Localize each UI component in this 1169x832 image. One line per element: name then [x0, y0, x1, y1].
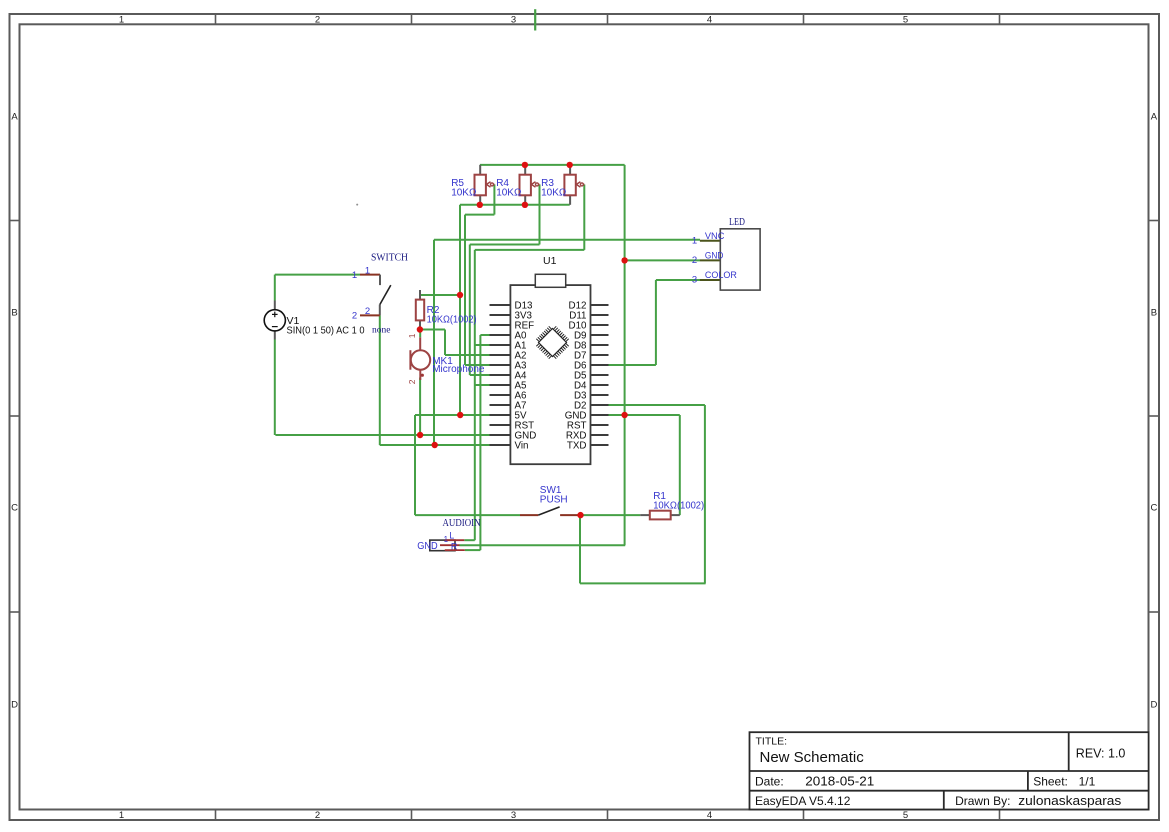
svg-text:1: 1: [352, 270, 357, 281]
svg-text:1/1: 1/1: [1079, 774, 1096, 788]
svg-text:Microphone: Microphone: [432, 364, 485, 375]
svg-text:2018-05-21: 2018-05-21: [805, 774, 874, 788]
svg-text:10KΩ: 10KΩ: [451, 188, 477, 199]
svg-text:A: A: [11, 112, 18, 123]
svg-text:B: B: [1151, 308, 1157, 319]
svg-text:Sheet:: Sheet:: [1033, 774, 1068, 788]
svg-text:SIN(0 1 50) AC 1 0: SIN(0 1 50) AC 1 0: [287, 324, 365, 336]
svg-text:TXD: TXD: [567, 441, 587, 452]
svg-text:3: 3: [692, 275, 697, 286]
svg-text:10KΩ: 10KΩ: [541, 188, 567, 199]
svg-text:3: 3: [511, 15, 516, 26]
svg-text:1: 1: [407, 333, 417, 338]
svg-text:VNC: VNC: [705, 231, 725, 242]
svg-text:10KΩ(1002): 10KΩ(1002): [653, 501, 704, 512]
svg-text:REV:: REV:: [1076, 747, 1105, 761]
svg-text:4: 4: [707, 15, 712, 26]
svg-text:2: 2: [315, 15, 320, 26]
svg-text:B: B: [11, 308, 17, 319]
svg-text:1: 1: [692, 235, 697, 246]
svg-text:1: 1: [444, 535, 449, 544]
svg-text:PUSH: PUSH: [540, 495, 568, 506]
svg-text:AUDIOIN: AUDIOIN: [443, 518, 481, 529]
svg-text:1: 1: [119, 810, 124, 821]
svg-text:Drawn By:: Drawn By:: [955, 794, 1010, 808]
svg-text:R: R: [451, 541, 458, 551]
svg-text:LED: LED: [729, 217, 745, 228]
svg-text:Date:: Date:: [755, 774, 784, 788]
svg-text:none: none: [372, 326, 390, 336]
svg-text:2: 2: [407, 379, 417, 384]
svg-text:1.0: 1.0: [1108, 747, 1125, 761]
svg-text:10KΩ(1002): 10KΩ(1002): [427, 315, 477, 326]
svg-text:D: D: [1150, 700, 1157, 711]
svg-text:2: 2: [365, 306, 370, 317]
svg-text:A: A: [1151, 112, 1158, 123]
svg-text:GND: GND: [417, 540, 438, 552]
svg-text:D: D: [11, 700, 18, 711]
svg-text:5: 5: [903, 810, 908, 821]
svg-text:COLOR: COLOR: [705, 270, 737, 281]
svg-text:5: 5: [903, 15, 908, 26]
svg-text:zulonaskasparas: zulonaskasparas: [1018, 794, 1121, 808]
svg-text:C: C: [1150, 503, 1157, 514]
svg-text:C: C: [11, 503, 18, 514]
svg-text:New Schematic: New Schematic: [760, 749, 865, 766]
svg-text:Vin: Vin: [515, 441, 529, 452]
svg-text:2: 2: [352, 310, 357, 321]
svg-text:L: L: [449, 531, 454, 541]
svg-text:SWITCH: SWITCH: [371, 252, 408, 264]
svg-text:1: 1: [119, 15, 124, 26]
svg-text:GND: GND: [705, 251, 724, 262]
svg-text:TITLE:: TITLE:: [756, 735, 788, 747]
svg-text:2: 2: [315, 810, 320, 821]
svg-text:4: 4: [707, 810, 712, 821]
svg-text:1: 1: [365, 265, 370, 276]
svg-text:U1: U1: [543, 255, 557, 267]
svg-text:EasyEDA V5.4.12: EasyEDA V5.4.12: [755, 794, 851, 808]
svg-text:3: 3: [511, 810, 516, 821]
svg-text:2: 2: [692, 255, 697, 266]
svg-text:10KΩ: 10KΩ: [496, 188, 522, 199]
